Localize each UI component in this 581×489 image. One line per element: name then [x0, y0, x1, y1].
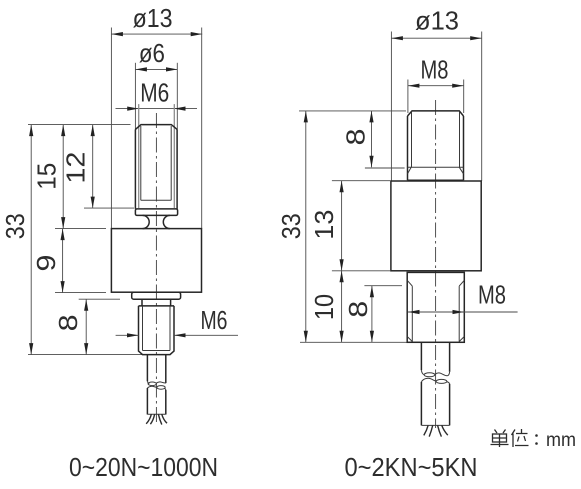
- top extension line (33/15/12 datum): [28, 124, 131, 126]
- svg-text:33: 33: [276, 213, 306, 239]
- bottom stud thread minor lines: [411, 286, 413, 341]
- wires right: [424, 425, 428, 435]
- svg-text:13: 13: [309, 210, 339, 240]
- washer bottom: [132, 292, 181, 299]
- extension line 13 bottom / 10 top: [332, 270, 390, 272]
- extension line 8 top right bottom: [365, 167, 405, 169]
- extension line 8 bottom right top: [364, 285, 402, 287]
- cable lower left: [146, 388, 148, 415]
- cable upper right: [420, 342, 422, 370]
- extension lines ø6: [134, 63, 136, 130]
- 位 glyph strokes: [512, 430, 516, 448]
- wires left: [146, 414, 151, 424]
- top stud thread minor lines: [411, 112, 413, 168]
- svg-text:ø13: ø13: [133, 3, 173, 33]
- bottom extension line (33/8 datum): [28, 354, 147, 356]
- neck: [142, 299, 171, 306]
- unit note 单位：mm: [491, 429, 577, 451]
- dim line ø13 left: [111, 33, 202, 35]
- thread runout chamfer diagonals: [408, 167, 464, 174]
- top stud M8: [408, 111, 464, 116]
- extension line 15 bottom / 9 top: [55, 228, 106, 230]
- svg-text:10: 10: [309, 294, 339, 320]
- M6 bottom leader: [116, 334, 139, 336]
- extension lines ø13 right drawing: [390, 32, 392, 182]
- svg-text:8: 8: [343, 301, 373, 318]
- extension line 9 bottom: [55, 292, 106, 294]
- extension line 12 bottom: [84, 207, 134, 209]
- bottom stud thread minor lines: [142, 306, 144, 351]
- dim line ø6: [135, 68, 177, 70]
- svg-text:15: 15: [32, 163, 62, 190]
- extension lines M6 top: [138, 104, 140, 208]
- svg-text:M8: M8: [478, 280, 506, 310]
- bottom stud chamfer diagonals bottom: [407, 337, 464, 342]
- cable bottom edge right: [421, 424, 449, 426]
- top stud M6 outer: [135, 125, 177, 130]
- bottom stud M8: [407, 272, 464, 342]
- cable break right lower edge: [421, 378, 449, 384]
- extension line 8 top: [79, 298, 120, 300]
- cable lower right: [420, 382, 422, 426]
- extension line ø13 right side: [201, 28, 203, 229]
- svg-text:33: 33: [0, 213, 30, 239]
- cable bottom edge left: [147, 413, 165, 415]
- cable break left upper edge: [147, 381, 165, 384]
- extension line 13 top: [332, 180, 390, 182]
- centerline left: [155, 113, 157, 422]
- body right: [391, 181, 481, 271]
- extension lines M8 top: [407, 80, 409, 114]
- svg-text:M6: M6: [201, 305, 228, 335]
- bottom stud chamfer diagonals top: [407, 280, 464, 286]
- svg-text:ø6: ø6: [139, 38, 165, 68]
- svg-text:0~2KN~5KN: 0~2KN~5KN: [345, 452, 478, 482]
- svg-text:mm: mm: [546, 430, 576, 451]
- svg-text:0~20N~1000N: 0~20N~1000N: [69, 452, 218, 482]
- svg-text:ø13: ø13: [415, 6, 459, 36]
- cable break left lower edge: [147, 386, 165, 390]
- thread runout line right top: [408, 166, 464, 168]
- cable upper left: [146, 355, 148, 382]
- svg-text:9: 9: [31, 255, 61, 272]
- svg-text:M8: M8: [421, 55, 449, 85]
- fullwidth colon: [535, 434, 538, 437]
- bottom extension line right (33/10/8 datum): [300, 341, 421, 343]
- cable break right ellipse A: [424, 373, 435, 377]
- dim line M8 top: [408, 85, 464, 87]
- top extension line right (33/8 datum): [299, 110, 406, 112]
- spool groove right arc: [163, 215, 170, 228]
- cable break left ellipse A: [148, 382, 156, 386]
- svg-text:12: 12: [61, 152, 91, 184]
- M8 bottom leader: [408, 311, 518, 313]
- washer top: [135, 209, 177, 216]
- svg-text:8: 8: [340, 129, 370, 146]
- top stud thread minor lines: [140, 126, 142, 200]
- svg-text:8: 8: [53, 314, 83, 331]
- dim line ø13 right: [391, 37, 481, 39]
- svg-text:M6: M6: [140, 78, 169, 108]
- cable break right upper edge: [421, 370, 449, 376]
- cable break left ellipse B: [157, 386, 165, 390]
- cable break right ellipse B: [436, 379, 447, 383]
- stud cap line: [408, 179, 464, 181]
- spool groove left arc: [143, 215, 150, 228]
- body left: [111, 229, 201, 293]
- dim line M6 top: [116, 108, 198, 110]
- centerline right: [435, 100, 437, 428]
- 单 glyph strokes: [495, 430, 506, 434]
- bottom stud M6: [139, 306, 175, 355]
- extension line ø13 left side: [110, 28, 112, 229]
- thread runout line: [141, 199, 171, 201]
